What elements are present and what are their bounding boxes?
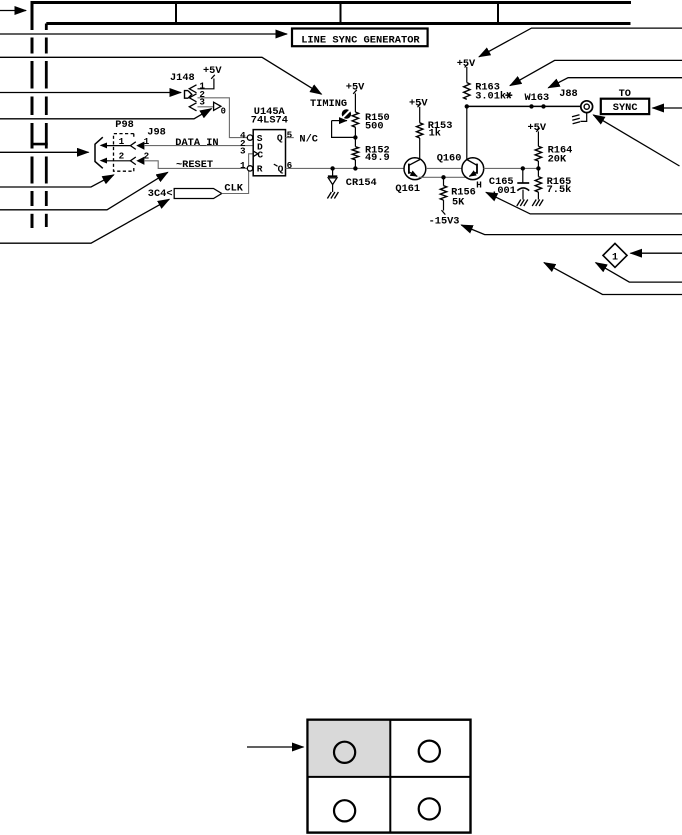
jumper W163 dot 2 xyxy=(541,104,545,108)
connector J148 shell xyxy=(185,91,192,99)
svg-text:+5V: +5V xyxy=(409,98,428,110)
wire pin 6 output xyxy=(286,167,405,169)
ground chassis at J88 xyxy=(572,115,580,117)
wire CR154 to ground xyxy=(332,185,334,192)
wire CLK to U145 C xyxy=(222,154,254,194)
resistor R152 xyxy=(352,147,358,160)
power +5V at J148 xyxy=(211,75,215,79)
svg-text:W163: W163 xyxy=(525,92,550,104)
callout arrow to LINE SYNC GENERATOR xyxy=(0,33,287,35)
svg-text:J98: J98 xyxy=(147,126,166,138)
wire bus bridge xyxy=(31,143,48,146)
wire bus line 1 (top) xyxy=(31,1,632,4)
node R163 junction xyxy=(465,104,469,108)
pin 4 bubble xyxy=(247,135,252,140)
svg-text:3.01k: 3.01k xyxy=(475,90,506,102)
callout arrow to P98 bracket xyxy=(0,175,114,187)
resistor R164 xyxy=(535,146,541,161)
svg-text:C: C xyxy=(257,149,263,160)
flag 3C4 CLK xyxy=(174,189,222,199)
callout arrow to RESET wire xyxy=(0,172,168,210)
wire Q160 base to divider xyxy=(484,167,539,169)
buffer triangle 0 xyxy=(214,102,221,110)
svg-text:5K: 5K xyxy=(452,197,465,209)
svg-text:1: 1 xyxy=(119,136,125,147)
wire R165 to ground xyxy=(537,192,539,199)
bus tick 3 xyxy=(497,1,499,25)
wire to CR154 xyxy=(332,168,334,176)
svg-text:2: 2 xyxy=(144,150,150,161)
svg-text:R: R xyxy=(257,164,263,175)
wire R156 to -15V3 xyxy=(443,200,445,210)
svg-text:CR154: CR154 xyxy=(346,177,377,189)
wire pin 5 N/C xyxy=(286,137,294,139)
resistor R165 xyxy=(535,177,541,193)
wire node to R165 xyxy=(537,168,539,176)
callout arrow to +5V of R163 xyxy=(479,28,682,57)
callout arrow to CLK flag xyxy=(0,199,169,243)
svg-text:Q: Q xyxy=(278,164,284,175)
wire R164 to node xyxy=(537,161,539,168)
transistor Q160 xyxy=(462,158,484,180)
svg-text:49.9: 49.9 xyxy=(365,152,390,164)
wire base net mid xyxy=(426,167,462,169)
node divider junction xyxy=(536,166,540,170)
wire J148 pin3 to buffer xyxy=(198,106,214,108)
node R152 junction xyxy=(353,166,357,170)
svg-text:CLK: CLK xyxy=(224,182,243,194)
svg-text:3: 3 xyxy=(240,146,246,157)
wire +5V to R150 xyxy=(354,93,356,112)
resistor R156 xyxy=(440,186,446,200)
connector P98 pin1 chevron xyxy=(130,142,135,150)
wire DATA_IN xyxy=(144,145,253,147)
svg-text:P98: P98 xyxy=(115,119,134,131)
svg-text:20K: 20K xyxy=(548,154,567,166)
callout arrow to buffer xyxy=(0,109,212,119)
connector P98 plug xyxy=(95,137,103,168)
resistor R153 xyxy=(417,123,423,138)
power +5V at R150 xyxy=(353,90,357,94)
connector J98 pin2 arrow xyxy=(137,158,144,165)
box LINE SYNC GENERATOR xyxy=(292,29,428,47)
svg-text:TIMING: TIMING xyxy=(310,98,347,110)
svg-text:J148: J148 xyxy=(170,72,195,84)
box SYNC xyxy=(601,99,649,114)
svg-text:1k: 1k xyxy=(429,127,441,139)
svg-text:500: 500 xyxy=(365,120,384,132)
table outer box xyxy=(308,720,471,833)
callout arrow to diamond 1 xyxy=(631,252,682,254)
node wiper junction xyxy=(353,135,357,139)
svg-text:74LS74: 74LS74 xyxy=(251,114,288,126)
transistor Q161 xyxy=(404,158,426,180)
svg-text:2: 2 xyxy=(119,151,125,162)
wire Q160 collector xyxy=(466,106,468,159)
power -15V3 xyxy=(442,210,446,214)
table shaded cell xyxy=(309,721,391,777)
wire to J88 xyxy=(467,105,581,107)
table circle bottom-left xyxy=(334,800,355,821)
callout arrow to 3.01k value xyxy=(510,60,682,85)
resistor R163 xyxy=(464,83,470,100)
power +5V at R164 xyxy=(536,128,540,132)
connector J98 pin1 arrow xyxy=(137,142,144,149)
resistor R150 xyxy=(352,112,358,127)
ground chassis at R165 xyxy=(532,200,536,207)
jumper W163 dot 1 xyxy=(529,104,533,108)
pot wiper arrow xyxy=(332,120,347,122)
svg-text:5: 5 xyxy=(287,129,293,140)
svg-text:+5V: +5V xyxy=(203,65,222,77)
wire J148 pin2 to U145 S xyxy=(198,98,248,138)
connector J148 pin 1 chevron xyxy=(189,85,196,93)
connector P98 pin1 contact xyxy=(101,143,107,147)
svg-text:LINE SYNC GENERATOR: LINE SYNC GENERATOR xyxy=(301,34,420,46)
wire emitter net xyxy=(419,176,469,178)
connector P98 pin2 chevron xyxy=(130,157,135,165)
svg-text:+5V: +5V xyxy=(528,122,547,134)
callout arrow to J148 xyxy=(0,92,181,94)
svg-text:H: H xyxy=(476,180,482,191)
callout arrow to node H xyxy=(486,192,682,214)
callout arrow lower A xyxy=(596,263,682,283)
callout arrow to -15V3 xyxy=(461,225,682,235)
svg-text:SYNC: SYNC xyxy=(613,102,638,114)
ground chassis at C165 xyxy=(517,200,521,207)
wire C165 to ground xyxy=(522,190,524,200)
wire emitter to R156 xyxy=(443,177,445,185)
table circle top-right xyxy=(419,741,440,762)
svg-text:1: 1 xyxy=(240,160,246,171)
capacitor C165 xyxy=(517,182,529,184)
svg-text:DATA_IN: DATA_IN xyxy=(175,137,218,149)
wire +5V to R164 xyxy=(537,131,539,146)
table divider vertical xyxy=(389,720,391,833)
wire J148 pin1 to +5V xyxy=(198,79,214,89)
wire ~RESET xyxy=(144,161,247,169)
callout arrow to J88 connector xyxy=(593,115,679,166)
svg-text:~RESET: ~RESET xyxy=(176,159,213,171)
ground chassis at CR154 xyxy=(327,192,331,199)
table circle top-left xyxy=(334,742,355,763)
callout arrow to TIMING xyxy=(0,57,322,94)
flag diamond 1 xyxy=(603,243,627,267)
svg-text:.001: .001 xyxy=(491,185,516,197)
svg-text:6: 6 xyxy=(287,160,293,171)
bus tick 1 xyxy=(175,1,177,25)
wire wiper feedback xyxy=(332,121,356,138)
node C165 junction xyxy=(521,166,525,170)
wire +5V to R153 xyxy=(419,107,421,123)
wire +5V to R163 xyxy=(466,67,468,83)
callout arrow lower B xyxy=(544,263,682,295)
arrow into bus xyxy=(0,10,26,12)
diode CR154 xyxy=(328,175,337,177)
svg-text:Q160: Q160 xyxy=(437,152,462,164)
wire R152 to node xyxy=(354,160,356,169)
svg-text:Q161: Q161 xyxy=(395,183,420,195)
table callout arrow xyxy=(247,746,304,748)
svg-text:0: 0 xyxy=(221,107,226,117)
table divider horizontal xyxy=(308,776,471,778)
svg-text:7.5k: 7.5k xyxy=(547,184,572,196)
wire bus vertical right xyxy=(45,24,48,31)
connector P98 pin2 contact xyxy=(101,158,107,162)
connector J88 coax xyxy=(581,101,593,113)
wire J88 shield to ground xyxy=(580,113,586,122)
wire R150 to R152 xyxy=(354,127,356,146)
connector J148 pin 3 chevron xyxy=(189,103,196,111)
svg-text:3C4<: 3C4< xyxy=(148,188,173,200)
node emitter junction xyxy=(441,175,445,179)
connector J148 pin 2 chevron xyxy=(189,94,196,102)
svg-text:+5V: +5V xyxy=(346,82,365,94)
wire bus vertical left xyxy=(31,3,34,31)
pin 1 bubble xyxy=(247,166,252,171)
svg-text:J88: J88 xyxy=(559,88,578,100)
callout arrow to SYNC box xyxy=(653,107,682,109)
node CR154 junction xyxy=(330,166,334,170)
connector P98 shell dashed xyxy=(114,134,134,172)
bus tick 2 xyxy=(340,1,342,25)
wire R153 to Q161 collector xyxy=(419,138,421,160)
power +5V at R153 xyxy=(418,103,422,107)
svg-text:1: 1 xyxy=(612,252,618,263)
svg-text:Q: Q xyxy=(277,132,283,143)
svg-text:-15V3: -15V3 xyxy=(429,215,460,227)
clock wedge xyxy=(253,151,258,157)
callout arrow to W163 xyxy=(548,78,682,88)
op-amp U145A box xyxy=(253,130,285,176)
wire node to C165 xyxy=(522,168,524,183)
power +5V at R163 xyxy=(465,64,469,68)
table circle bottom-right xyxy=(419,798,440,819)
screwdriver adjust symbol xyxy=(342,109,351,118)
svg-text:N/C: N/C xyxy=(299,133,318,145)
wire bus line 2 xyxy=(46,22,630,25)
callout arrow to P98 plug xyxy=(0,151,89,153)
